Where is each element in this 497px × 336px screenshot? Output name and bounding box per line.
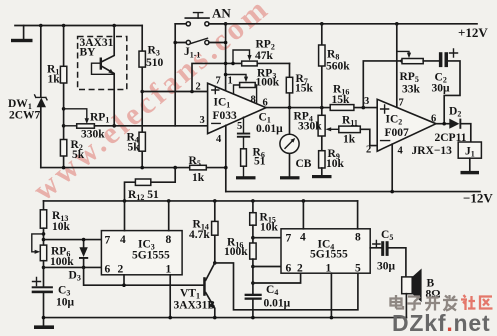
node R16 / IC4 pin6 row [251, 265, 255, 269]
op-amp IC2 F007 [364, 96, 436, 157]
svg-text:−12V: −12V [463, 191, 493, 206]
node AN right [224, 22, 228, 26]
dashed box 3AX31 BY [78, 37, 127, 90]
svg-text:10μ: 10μ [56, 297, 75, 309]
svg-text:2: 2 [118, 264, 124, 276]
svg-text:+12V: +12V [458, 25, 488, 40]
resistor R4 [127, 92, 146, 168]
wire IC1 pin8 [255, 85, 256, 104]
svg-text:AN: AN [212, 6, 231, 21]
svg-text:47k: 47k [255, 50, 274, 62]
diode D3 [69, 238, 89, 283]
wire IC3 pin7 row [44, 239, 102, 241]
wire IC3 pin6 row [44, 266, 102, 268]
svg-text:0.01μ: 0.01μ [256, 123, 283, 135]
wire IC3 pin4 riser [124, 201, 126, 231]
svg-text:6: 6 [105, 264, 111, 276]
node output / R7 / CB [288, 106, 292, 110]
resistor R16 15k [330, 84, 354, 111]
svg-text:510: 510 [146, 57, 164, 69]
svg-text:8: 8 [251, 95, 256, 106]
resistor R8 [319, 24, 351, 108]
svg-text:3: 3 [200, 115, 205, 126]
potentiometer RP3 [224, 68, 280, 89]
resistor R1 [47, 64, 67, 86]
ground under CB [280, 176, 300, 179]
node rail C / R14 [213, 199, 217, 203]
svg-text:100k: 100k [50, 256, 74, 268]
wire IC4 pin8 riser [357, 201, 359, 229]
resistor R16 100k [224, 237, 256, 294]
svg-text:1k: 1k [48, 74, 61, 86]
svg-text:5: 5 [237, 121, 242, 132]
diode D2 2CP11 [435, 106, 471, 145]
node rail B / R2 [62, 166, 66, 170]
node rail A / sensor collector [112, 24, 116, 28]
wire pin2 riser to RP2 net [192, 63, 290, 91]
node RP1 right / sensor emitter [112, 124, 116, 128]
svg-text:1: 1 [166, 264, 172, 276]
node RP6 / D3 bottom wire [42, 266, 46, 270]
svg-text:JRX−13: JRX−13 [412, 145, 453, 157]
node rail C / R15 [251, 199, 255, 203]
logo text qu (区) [480, 297, 493, 309]
ground under R6 [236, 176, 256, 179]
svg-text:0.01μ: 0.01μ [264, 298, 291, 310]
resistor R14 [189, 201, 218, 263]
node rail D / C4 [251, 316, 255, 320]
wire IC4 pin7 row [253, 237, 281, 239]
svg-text:5G1555: 5G1555 [132, 250, 170, 262]
resistor R2 [60, 139, 84, 161]
transistor sensor 3AX31 [92, 26, 115, 126]
svg-text:33k: 33k [402, 84, 421, 96]
node pin2 riser [190, 90, 194, 94]
logo text fa (发) [443, 295, 458, 311]
wire AN left vertical [174, 24, 176, 126]
node rail D / IC4 pin1 [330, 316, 334, 320]
wire rail D (bottom) [44, 317, 407, 319]
svg-text:BY: BY [80, 47, 97, 59]
svg-text:8: 8 [166, 234, 172, 246]
potentiometer RP2 [231, 39, 275, 66]
watermark www.elecfans.com [26, 0, 276, 207]
svg-text:5k: 5k [72, 149, 85, 161]
svg-text:7: 7 [286, 233, 292, 245]
node bridge mid / pin2 wire [140, 90, 144, 94]
svg-text:2CW7: 2CW7 [9, 110, 41, 122]
svg-text:7: 7 [399, 98, 404, 109]
node R15 / IC4 pin7 row [251, 236, 255, 240]
wire IC4 pin6 row [253, 266, 281, 268]
node J1-1 right [224, 41, 228, 45]
wire J1-1 right vertical to IC1 pin7 [225, 24, 227, 91]
resistor R5 [189, 155, 207, 184]
node rail A / DW1 [39, 24, 43, 28]
node output / R8 / RP4 [320, 106, 324, 110]
svg-text:10k: 10k [52, 221, 71, 233]
zener DW1 [8, 26, 47, 168]
svg-text:100k: 100k [224, 246, 248, 258]
svg-text:15k: 15k [295, 83, 314, 95]
ground bottom-left [34, 318, 54, 329]
node rail A / R1 [62, 24, 66, 28]
capacitor C5 [370, 229, 406, 277]
wire top rail A [15, 25, 142, 27]
svg-text:2: 2 [297, 263, 303, 275]
svg-text:8Ω: 8Ω [426, 289, 441, 301]
logo text dian (电) [391, 295, 404, 309]
capacitor C3 [32, 278, 75, 318]
svg-text:DZkf.net: DZkf.net [392, 310, 490, 336]
node rail A / R8 [320, 22, 324, 26]
logo text she (社) [461, 295, 476, 310]
svg-text:5k: 5k [128, 142, 141, 154]
svg-text:8: 8 [355, 232, 361, 244]
wire IC3 pin2 to VT1 base [84, 267, 203, 287]
wire IC1 pin4 to -12V corner [225, 126, 227, 192]
node pin7 line / RP2 net [224, 62, 228, 66]
node rail D / VT1 emitter [213, 316, 217, 320]
node R13 / D3 top wire [42, 238, 46, 242]
ground top-left [11, 26, 33, 43]
potentiometer RP1 [64, 109, 110, 141]
wire IC2 output [436, 123, 449, 125]
node rail C / IC4 pin4 [302, 199, 306, 203]
svg-text:100k: 100k [256, 77, 280, 89]
svg-text:10k: 10k [326, 158, 345, 170]
logo text kai (开) [425, 298, 440, 311]
resistor R9 [319, 148, 345, 175]
wire +12V rail [209, 23, 477, 25]
node output / C2 return [442, 122, 446, 126]
node pin4 / rail B [224, 166, 228, 170]
wire IC4 pin2 row [253, 273, 301, 283]
svg-text:6: 6 [431, 114, 436, 125]
svg-text:51: 51 [254, 156, 266, 168]
resistor R13 [40, 201, 70, 245]
op-amp IC1 F033 [196, 76, 268, 146]
svg-text:4: 4 [216, 134, 222, 145]
potentiometer RP5 [363, 51, 423, 107]
speaker B 8ohm [402, 269, 441, 318]
resistor R7 [286, 63, 313, 107]
node R1/RP1 wiper [62, 107, 66, 111]
wire VT1 collector to IC4 pin5 [215, 263, 358, 310]
svg-text:5G1555: 5G1555 [310, 249, 348, 261]
wire RP1 to IC1 pin3 [94, 125, 207, 127]
node J1-1 left [173, 41, 177, 45]
wire R1 column [63, 26, 65, 168]
logo text zi (子) [407, 297, 421, 310]
node output / RP5 riser [362, 106, 366, 110]
svg-text:7: 7 [105, 235, 111, 247]
potentiometer RP6 [32, 234, 74, 286]
node R1/RP1 left [62, 124, 66, 128]
node rail A / RP5-pin7 riser [395, 22, 399, 26]
node R14 / VT1 collector [213, 261, 217, 265]
wire IC4 pin4 riser [302, 201, 304, 229]
wire IC1 pin1 [234, 85, 240, 94]
resistor R12 [125, 168, 176, 202]
wire IC1 output [266, 107, 377, 109]
svg-text:F033: F033 [213, 110, 238, 122]
wire IC2 pin4 [391, 144, 393, 191]
capacitor C2 [423, 49, 460, 124]
svg-text:2: 2 [196, 82, 201, 93]
ground under J1 [461, 158, 480, 174]
node rail D / IC3 pin1 [168, 316, 172, 320]
svg-text:F007: F007 [385, 127, 410, 139]
svg-text:2: 2 [366, 145, 371, 156]
ground under R9 [312, 175, 332, 178]
wire rail B (negative) [41, 167, 226, 169]
svg-text:4: 4 [120, 234, 126, 246]
potentiometer RP4 [294, 108, 339, 151]
node rail C / IC3 pin8 [167, 199, 171, 203]
wire IC3 pin8 riser [168, 201, 170, 231]
wire IC1 pin2 [142, 91, 207, 93]
svg-text:1k: 1k [192, 172, 205, 184]
svg-text:3: 3 [364, 96, 369, 107]
svg-text:7: 7 [216, 76, 221, 87]
node rail D / C3 ground [42, 316, 46, 320]
wire rail C (bottom section supply) [44, 200, 358, 202]
resistor R3 [139, 26, 164, 92]
node rail C / IC3 pin4 [123, 199, 127, 203]
transistor VT1 3AX31B [174, 263, 216, 318]
node -12V / IC2 pin4 [390, 190, 394, 194]
wire pin7 riser IC2 [396, 24, 398, 108]
svg-text:330k: 330k [298, 121, 322, 133]
wire IC3 pin1 to rail D [169, 275, 171, 318]
svg-text:4: 4 [300, 232, 306, 244]
resistor R6 [241, 147, 266, 177]
resistor R11 [339, 115, 377, 146]
svg-text:R12 51: R12 51 [128, 189, 159, 202]
relay J1 JRX-13 [412, 142, 482, 159]
node R16 / IC4 pin2 row [251, 281, 255, 285]
meter CB [280, 108, 312, 177]
svg-text:3AX31B: 3AX31B [174, 300, 216, 312]
svg-text:4: 4 [398, 146, 404, 157]
svg-text:10k: 10k [260, 222, 279, 234]
IC4 box 5G1555 [281, 229, 370, 275]
node R13 / RP6 wiper [42, 232, 46, 236]
svg-text:30μ: 30μ [432, 83, 451, 95]
node rail B / R4 [140, 166, 144, 170]
node rail B / R12 riser [173, 166, 177, 170]
pushbutton AN [175, 6, 231, 26]
svg-text:CB: CB [296, 158, 312, 170]
capacitor C1 [237, 112, 283, 149]
svg-text:5: 5 [355, 263, 361, 275]
svg-text:6: 6 [286, 263, 292, 275]
svg-text:1: 1 [228, 76, 233, 87]
svg-text:15k: 15k [332, 94, 351, 106]
relay contact J1-1 [175, 38, 225, 59]
IC3 box 5G1555 [101, 231, 182, 276]
resistor R15 [250, 201, 279, 243]
svg-text:330k: 330k [81, 129, 105, 141]
svg-text:1k: 1k [343, 134, 356, 146]
capacitor C4 [245, 284, 291, 318]
svg-text:560k: 560k [326, 61, 350, 73]
wire -12V rail [226, 191, 480, 193]
svg-text:4.7k: 4.7k [189, 229, 210, 241]
wire IC4 pin1 to rail D [330, 273, 332, 317]
svg-text:30μ: 30μ [377, 261, 396, 273]
